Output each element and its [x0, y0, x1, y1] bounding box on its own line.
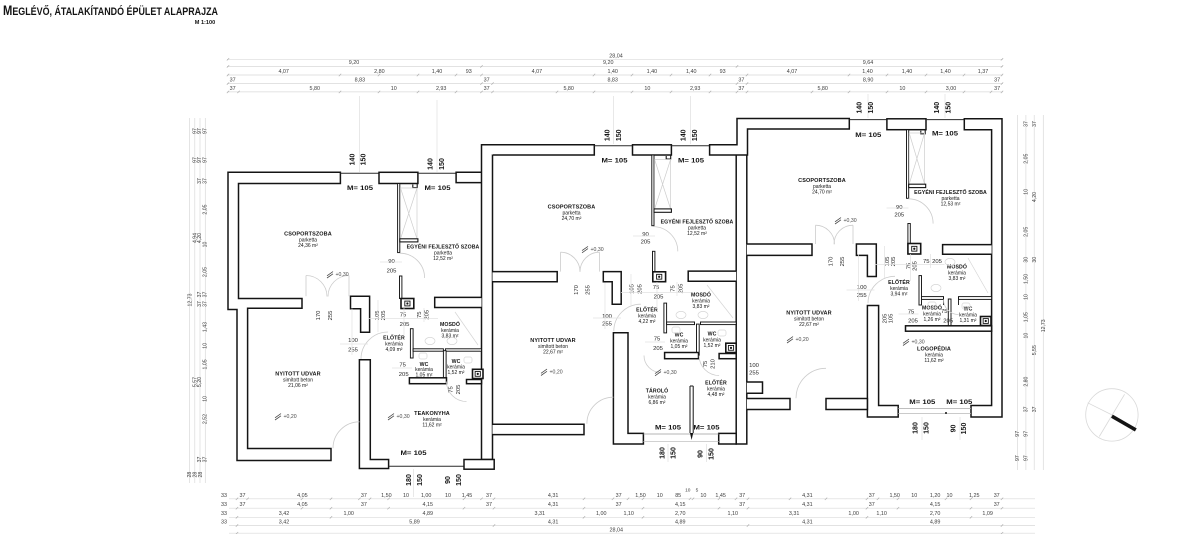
wall: U1 wardrobe bottom hook — [400, 239, 418, 242]
dimension chain: right vertical lines — [1017, 115, 1019, 470]
svg-text:1,05 m²: 1,05 m² — [671, 344, 688, 350]
svg-text:10: 10 — [700, 493, 706, 499]
wall: U3 north-west assembly — [710, 119, 850, 156]
svg-text:2,70: 2,70 — [675, 511, 686, 517]
svg-text:4,31: 4,31 — [548, 519, 559, 525]
svg-text:1,50: 1,50 — [1024, 274, 1030, 284]
svg-text:10: 10 — [947, 493, 953, 499]
svg-text:150: 150 — [361, 154, 368, 166]
wall: U1 wc block south pieces — [409, 378, 446, 384]
wall: U1 wc divider (thin) — [443, 351, 446, 381]
level mark: U3 +0,20 courtyard — [787, 337, 793, 343]
wall: U3 courtyard south piece2 — [826, 399, 867, 410]
svg-text:8,83: 8,83 — [355, 78, 366, 84]
svg-text:24,70 m²: 24,70 m² — [812, 189, 832, 195]
wall: U2 EGYENI west wall (thin) — [652, 155, 654, 226]
svg-text:11,62 m²: 11,62 m² — [924, 358, 944, 364]
svg-text:10: 10 — [1024, 294, 1030, 300]
svg-text:11,62 m²: 11,62 m² — [422, 422, 442, 428]
svg-text:37: 37 — [230, 78, 236, 84]
svg-text:10: 10 — [911, 493, 917, 499]
svg-text:M= 105: M= 105 — [932, 131, 958, 138]
dimension chain: bottom horizontal lines — [229, 498, 1035, 500]
svg-text:75: 75 — [654, 337, 661, 343]
electrical box: U3 second — [981, 317, 992, 326]
svg-text:4,15: 4,15 — [675, 502, 686, 508]
svg-text:30: 30 — [1024, 257, 1030, 263]
svg-text:150: 150 — [692, 129, 699, 141]
svg-text:1,40: 1,40 — [902, 69, 913, 75]
svg-text:37: 37 — [202, 292, 208, 298]
svg-text:255: 255 — [586, 284, 592, 295]
svg-text:37: 37 — [486, 493, 492, 499]
level mark: U1 +0,30 room — [327, 272, 333, 278]
svg-text:EGYÉNI FEJLESZTŐ SZOBA: EGYÉNI FEJLESZTŐ SZOBA — [914, 188, 987, 196]
door: U3 eloter door arc — [868, 276, 895, 303]
svg-text:37: 37 — [240, 493, 246, 499]
svg-text:30: 30 — [1032, 257, 1038, 263]
window: U2 south windows sill lines — [643, 433, 718, 435]
svg-text:33: 33 — [221, 519, 227, 525]
wall: U3 wardrobe bottom hook — [909, 184, 926, 187]
svg-text:205: 205 — [654, 295, 665, 301]
dimension chain: top horizontal lines — [227, 58, 1003, 60]
svg-text:93: 93 — [466, 69, 472, 75]
svg-text:37: 37 — [230, 86, 236, 92]
svg-text:10: 10 — [202, 242, 208, 248]
wall: party wall U2/U3 — [736, 145, 747, 444]
svg-text:33: 33 — [221, 502, 227, 508]
svg-text:+0,30: +0,30 — [591, 247, 604, 253]
door: U1 courtyard south door arc — [333, 422, 360, 449]
svg-text:150: 150 — [417, 474, 424, 486]
svg-text:1,10: 1,10 — [728, 511, 739, 517]
level mark: U1 +0,20 courtyard — [275, 414, 281, 420]
svg-text:205: 205 — [679, 283, 685, 294]
wall: U3 sanitary south wall pieces — [906, 326, 992, 331]
svg-text:MOSDÓ: MOSDÓ — [440, 320, 460, 328]
svg-text:21,06 m²: 21,06 m² — [288, 383, 308, 389]
wall: U2 wc block south pieces — [665, 353, 699, 359]
svg-text:2,52: 2,52 — [202, 414, 208, 424]
svg-text:205: 205 — [387, 269, 398, 275]
svg-text:140: 140 — [934, 102, 941, 114]
window mullion dot: U3 south — [945, 412, 947, 414]
svg-text:33: 33 — [221, 493, 227, 499]
svg-text:37: 37 — [1032, 121, 1038, 127]
wall: U1 north piece3 — [456, 172, 481, 182]
svg-text:140: 140 — [856, 102, 863, 114]
wall: U3 north piece3 + east wall + south-east piece — [964, 119, 1002, 417]
svg-text:EGYÉNI FEJLESZTŐ SZOBA: EGYÉNI FEJLESZTŐ SZOBA — [407, 243, 480, 251]
fixtures: U1 mosdo sinks — [425, 337, 435, 344]
window: U3 north window2 sill — [926, 119, 964, 121]
svg-text:37: 37 — [739, 493, 745, 499]
svg-text:205: 205 — [908, 319, 919, 325]
svg-text:1,40: 1,40 — [940, 69, 951, 75]
svg-text:8,90: 8,90 — [863, 78, 874, 84]
svg-text:2,70: 2,70 — [930, 511, 941, 517]
wall: U3 courtyard north — [747, 244, 812, 255]
svg-text:170: 170 — [316, 310, 322, 321]
wall: U2 wardrobe bottom hook — [654, 209, 671, 212]
svg-text:205: 205 — [913, 260, 919, 271]
svg-text:105: 105 — [889, 313, 895, 324]
svg-text:75: 75 — [908, 310, 915, 316]
svg-text:4,09 m²: 4,09 m² — [386, 347, 403, 353]
svg-text:EGYÉNI FEJLESZTŐ SZOBA: EGYÉNI FEJLESZTŐ SZOBA — [661, 218, 734, 226]
wall: U2 eloter/mosdo divider (thin) — [664, 303, 667, 333]
svg-text:100: 100 — [749, 363, 760, 369]
svg-text:150: 150 — [456, 474, 463, 486]
svg-text:1,25: 1,25 — [969, 493, 980, 499]
svg-text:37: 37 — [1024, 406, 1030, 412]
svg-text:M= 105: M= 105 — [602, 158, 628, 165]
window: U1 teakonyha south window sill — [389, 465, 464, 467]
svg-text:37: 37 — [994, 493, 1000, 499]
svg-text:4,20: 4,20 — [197, 233, 203, 243]
svg-text:+0,20: +0,20 — [550, 370, 563, 376]
svg-text:5,80: 5,80 — [310, 86, 321, 92]
wall: U2 courtyard south — [493, 424, 585, 434]
svg-text:37: 37 — [486, 502, 492, 508]
svg-text:37: 37 — [738, 78, 744, 84]
wall: U1 teakonyha west + south-west piece — [359, 360, 388, 469]
svg-text:1,05 m²: 1,05 m² — [416, 372, 433, 378]
wall: U2 wc divider (thin) — [697, 324, 700, 356]
svg-text:205: 205 — [400, 322, 411, 328]
svg-text:4,31: 4,31 — [802, 502, 813, 508]
door: U2 tarolo door arc — [644, 356, 661, 373]
guide lines: window centrelines — [359, 96, 361, 172]
svg-text:2,05: 2,05 — [1024, 154, 1030, 164]
svg-text:140: 140 — [605, 129, 612, 141]
svg-text:8,83: 8,83 — [607, 78, 618, 84]
svg-text:4,07: 4,07 — [787, 69, 798, 75]
svg-text:12,73: 12,73 — [1041, 319, 1047, 332]
svg-text:90: 90 — [951, 425, 958, 433]
svg-text:150: 150 — [439, 158, 446, 170]
svg-text:5,80: 5,80 — [563, 86, 574, 92]
svg-text:97: 97 — [1024, 431, 1030, 437]
svg-text:1,40: 1,40 — [432, 69, 443, 75]
svg-text:37: 37 — [484, 78, 490, 84]
svg-text:75: 75 — [400, 313, 407, 319]
electrical box: U2 second — [726, 343, 736, 352]
svg-text:4,31: 4,31 — [802, 493, 813, 499]
svg-text:10: 10 — [403, 493, 409, 499]
svg-text:75: 75 — [941, 309, 948, 315]
svg-text:37: 37 — [202, 457, 208, 463]
level mark: U2 +0,20 courtyard — [541, 369, 547, 375]
svg-text:150: 150 — [616, 129, 623, 141]
svg-text:3,42: 3,42 — [279, 519, 290, 525]
svg-text:170: 170 — [574, 284, 580, 295]
svg-text:10: 10 — [644, 86, 650, 92]
door: U2 wc door arc — [699, 356, 719, 376]
svg-text:1,10: 1,10 — [876, 511, 887, 517]
svg-text:150: 150 — [868, 102, 875, 114]
wall: U3 door stub — [908, 224, 910, 244]
svg-text:37: 37 — [616, 502, 622, 508]
svg-text:4,15: 4,15 — [930, 502, 941, 508]
svg-text:1,40: 1,40 — [862, 69, 873, 75]
svg-text:6,86 m²: 6,86 m² — [649, 400, 666, 406]
svg-text:10: 10 — [657, 493, 663, 499]
wall: U2 courtyard north — [493, 272, 558, 282]
svg-text:1,09: 1,09 — [982, 511, 993, 517]
svg-text:1,45: 1,45 — [462, 493, 473, 499]
door: U3 csoportszoba double door — [816, 225, 835, 244]
dimension ticks: top — [227, 91, 229, 93]
svg-text:1,00: 1,00 — [596, 511, 607, 517]
level mark: U2 +0,30 room — [582, 246, 588, 252]
svg-text:12,73: 12,73 — [187, 293, 193, 306]
svg-text:205: 205 — [641, 239, 652, 245]
svg-text:2,05: 2,05 — [1024, 227, 1030, 237]
svg-text:3,31: 3,31 — [535, 511, 546, 517]
fixtures: U1 wc toilets — [419, 353, 427, 359]
wall: U2 mosdo south partition (thin) — [667, 322, 695, 325]
wall: U2 window jamb hook — [666, 155, 671, 159]
svg-text:M= 105: M= 105 — [655, 425, 681, 432]
svg-text:+0,30: +0,30 — [912, 340, 925, 346]
svg-text:205: 205 — [894, 213, 905, 219]
svg-text:150: 150 — [671, 447, 678, 459]
svg-text:1,40: 1,40 — [686, 69, 697, 75]
wall: U2 mosdo north — [688, 271, 736, 281]
svg-text:150: 150 — [946, 102, 953, 114]
svg-text:1,43: 1,43 — [202, 322, 208, 332]
electrical box: U3 — [908, 244, 921, 255]
svg-text:2,93: 2,93 — [436, 86, 447, 92]
svg-text:75: 75 — [671, 285, 677, 292]
svg-text:4,48 m²: 4,48 m² — [708, 392, 725, 398]
electrical box: U1 — [401, 299, 414, 309]
svg-text:37: 37 — [361, 502, 367, 508]
wall: U3 courtyard south piece1 — [747, 399, 790, 410]
svg-text:1,52 m²: 1,52 m² — [448, 370, 465, 376]
guide lines: interior dimension extensions — [368, 318, 438, 320]
svg-text:1,40: 1,40 — [607, 69, 618, 75]
svg-text:2,93: 2,93 — [690, 86, 701, 92]
wall: party wall U1/U2 — [482, 145, 493, 460]
svg-text:75: 75 — [703, 360, 709, 367]
svg-text:205: 205 — [943, 319, 954, 325]
wall: U2 door stub — [653, 251, 655, 271]
svg-text:3,83 m²: 3,83 m² — [442, 333, 459, 339]
window: U1 north window1 sill — [340, 172, 379, 174]
svg-text:97: 97 — [202, 157, 208, 163]
svg-text:205: 205 — [399, 372, 410, 378]
svg-text:75: 75 — [399, 362, 406, 368]
svg-text:10: 10 — [202, 396, 208, 402]
svg-text:9,64: 9,64 — [863, 60, 874, 66]
svg-text:10: 10 — [202, 343, 208, 349]
svg-text:24,70 m²: 24,70 m² — [562, 216, 582, 222]
svg-text:24,36 m²: 24,36 m² — [298, 243, 318, 249]
svg-text:M= 105: M= 105 — [678, 158, 704, 165]
svg-text:205: 205 — [932, 259, 943, 265]
svg-text:1,45: 1,45 — [715, 493, 726, 499]
svg-text:4,89: 4,89 — [675, 519, 686, 525]
svg-text:4,20: 4,20 — [1032, 192, 1038, 202]
svg-text:37: 37 — [994, 502, 1000, 508]
svg-text:M= 105: M= 105 — [855, 132, 881, 139]
svg-text:37: 37 — [869, 502, 875, 508]
svg-text:140: 140 — [350, 154, 357, 166]
svg-text:180: 180 — [406, 474, 413, 486]
wall: U1 west + north piece1 + interior south + courtyard west + courtyard south — [228, 172, 340, 460]
svg-text:1,05: 1,05 — [202, 359, 208, 369]
door: U1 wc door arc — [447, 382, 467, 402]
fixtures: U2 wc toilets — [672, 327, 680, 333]
wall: U3 mosdo/wc divider (thin) — [948, 299, 951, 328]
svg-text:90: 90 — [698, 450, 705, 458]
compass: north needle (black) — [1112, 416, 1136, 430]
svg-text:2,80: 2,80 — [1024, 376, 1030, 386]
svg-text:37: 37 — [616, 493, 622, 499]
svg-text:255: 255 — [348, 348, 359, 354]
level mark: U1 +0,30 teakonyha — [388, 414, 394, 420]
svg-text:255: 255 — [749, 371, 760, 377]
svg-text:4,05: 4,05 — [297, 502, 308, 508]
svg-text:ELŐTÉR: ELŐTÉR — [383, 334, 405, 342]
svg-text:1,00: 1,00 — [343, 511, 354, 517]
wall: U3 eloter/mosdo divider (thin) — [919, 276, 922, 305]
window: U1 north window2 sill — [418, 172, 456, 174]
svg-text:37: 37 — [994, 78, 1000, 84]
svg-text:4,15: 4,15 — [423, 502, 434, 508]
wall: U1 eloter/mosdo divider (thin) — [410, 329, 413, 358]
svg-text:1,00: 1,00 — [421, 493, 432, 499]
wall: U3 partition under mosdo (thin) — [922, 297, 944, 300]
svg-text:33: 33 — [221, 511, 227, 517]
wall: U1 EGYENI west wall (thin) — [398, 184, 400, 253]
svg-text:+0,30: +0,30 — [844, 218, 857, 224]
svg-text:+0,30: +0,30 — [664, 370, 677, 376]
svg-text:170: 170 — [829, 256, 835, 267]
svg-text:5,89: 5,89 — [409, 519, 420, 525]
fixtures: U3 mosdo diagonal — [968, 258, 988, 293]
svg-text:140: 140 — [681, 129, 688, 141]
svg-text:2,80: 2,80 — [374, 69, 385, 75]
wardrobe: U1 with X — [401, 188, 418, 239]
svg-text:10: 10 — [1024, 333, 1030, 339]
wall: U2/U3 stub east of party wall — [747, 382, 763, 393]
svg-text:1,26 m²: 1,26 m² — [924, 317, 941, 323]
door: U2 egyeni door arc — [653, 227, 678, 252]
svg-text:4,89: 4,89 — [423, 511, 434, 517]
svg-text:150: 150 — [924, 422, 931, 434]
svg-text:10: 10 — [1024, 189, 1030, 195]
svg-text:90: 90 — [642, 232, 649, 238]
svg-text:1,40: 1,40 — [647, 69, 658, 75]
svg-text:TÁROLÓ: TÁROLÓ — [646, 387, 669, 395]
svg-text:3,94 m²: 3,94 m² — [891, 291, 908, 297]
wall: U2 south-east piece — [719, 433, 737, 444]
svg-text:37: 37 — [1024, 121, 1030, 127]
svg-text:37: 37 — [869, 493, 875, 499]
svg-text:+0,30: +0,30 — [397, 414, 410, 420]
svg-text:3,83 m²: 3,83 m² — [693, 304, 710, 310]
door: U3 courtyard south door arc — [796, 368, 826, 398]
svg-text:97: 97 — [1015, 455, 1021, 461]
svg-text:1,05: 1,05 — [1024, 312, 1030, 322]
compass: circle — [1086, 389, 1138, 441]
svg-text:75: 75 — [417, 311, 423, 318]
svg-text:100: 100 — [602, 314, 613, 320]
svg-text:MOSDÓ: MOSDÓ — [947, 263, 967, 271]
svg-text:1,52 m²: 1,52 m² — [704, 343, 721, 349]
svg-text:2,05: 2,05 — [202, 267, 208, 277]
wall: U3 courtyard east / logopedia west + south-west piece — [867, 306, 898, 418]
svg-text:37: 37 — [1032, 406, 1038, 412]
svg-text:100: 100 — [348, 338, 359, 344]
svg-text:9,20: 9,20 — [349, 60, 360, 66]
svg-text:255: 255 — [840, 256, 846, 267]
svg-text:75: 75 — [449, 386, 455, 393]
svg-text:ELŐTÉR: ELŐTÉR — [705, 379, 727, 387]
wall: U1 door stub at egyeni door — [400, 276, 402, 299]
svg-text:1,50: 1,50 — [381, 493, 392, 499]
svg-text:1,10: 1,10 — [623, 511, 634, 517]
svg-text:1,00: 1,00 — [848, 511, 859, 517]
svg-text:4,89: 4,89 — [930, 519, 941, 525]
svg-text:M= 105: M= 105 — [909, 399, 935, 406]
svg-text:75: 75 — [923, 259, 930, 265]
svg-text:5,20: 5,20 — [197, 377, 203, 387]
wall: U1 teakonyha south-east corner piece — [464, 460, 494, 470]
svg-text:22,67 m²: 22,67 m² — [543, 349, 563, 355]
svg-text:93: 93 — [720, 69, 726, 75]
svg-text:1,20: 1,20 — [930, 493, 941, 499]
svg-text:37: 37 — [738, 86, 744, 92]
fixtures: U2 mosdo diagonal — [707, 285, 733, 318]
level mark: U3 +0,30 room — [835, 218, 841, 224]
svg-text:3,31: 3,31 — [789, 511, 800, 517]
svg-text:M= 105: M= 105 — [401, 450, 427, 457]
wall: U1 window jamb hook — [413, 184, 417, 188]
door: U1 csoportszoba double door — [306, 276, 327, 297]
svg-text:12,53 m²: 12,53 m² — [941, 201, 961, 207]
svg-text:28,04: 28,04 — [610, 527, 624, 533]
svg-text:37: 37 — [361, 493, 367, 499]
wall: U3 north piece2 — [887, 119, 926, 130]
compass: cross diameters — [1099, 394, 1124, 436]
svg-text:MOSDÓ: MOSDÓ — [691, 291, 711, 299]
svg-text:97: 97 — [1015, 431, 1021, 437]
window: U2 north window2 sill — [671, 145, 709, 147]
wall: U2 tarolo west + south-west piece — [613, 333, 643, 444]
svg-text:5,80: 5,80 — [817, 86, 828, 92]
window post: U2 between south windows — [690, 386, 693, 433]
wall: U3 interior L-wall — [856, 244, 876, 277]
svg-text:3,00: 3,00 — [946, 86, 957, 92]
svg-text:10: 10 — [685, 488, 691, 494]
svg-text:180: 180 — [660, 447, 667, 459]
fixtures: U3 wc toilets — [928, 302, 936, 308]
svg-text:4,31: 4,31 — [548, 502, 559, 508]
wall: U2 north piece1 — [482, 145, 595, 155]
svg-text:205: 205 — [425, 309, 431, 320]
svg-text:210: 210 — [711, 358, 717, 369]
level mark: U3 +0,30 logopedia — [903, 339, 909, 345]
svg-text:97: 97 — [1024, 455, 1030, 461]
svg-text:5,55: 5,55 — [1032, 345, 1038, 355]
svg-text:37: 37 — [202, 178, 208, 184]
svg-text:37: 37 — [240, 502, 246, 508]
